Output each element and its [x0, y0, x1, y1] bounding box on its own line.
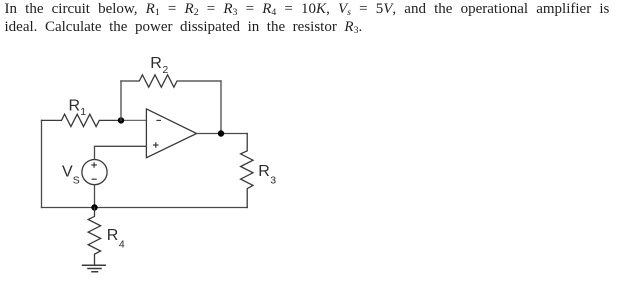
svg-text:S: S — [73, 174, 80, 186]
svg-text:R: R — [69, 97, 81, 114]
svg-text:R: R — [258, 163, 270, 180]
svg-text:4: 4 — [119, 239, 125, 251]
resistor R3 — [241, 134, 253, 208]
wire op-amp output — [197, 133, 248, 135]
op-amp U1 — [146, 109, 196, 158]
resistor R2 — [121, 75, 221, 87]
svg-text:R: R — [150, 55, 162, 72]
node B junction dot — [91, 204, 97, 210]
resistor R4 — [88, 208, 100, 266]
svg-text:V: V — [62, 163, 73, 180]
svg-text:3: 3 — [270, 174, 276, 186]
svg-text:1: 1 — [80, 106, 86, 118]
svg-text:2: 2 — [162, 64, 168, 76]
wire inverting input — [121, 119, 146, 121]
wire bottom horizontal — [42, 207, 248, 209]
node C junction dot — [218, 130, 224, 136]
source plus sign — [92, 163, 96, 167]
wire non-inverting input — [95, 146, 147, 159]
node A junction dot — [118, 117, 124, 123]
ground — [83, 265, 106, 272]
wire left vertical — [41, 120, 43, 207]
voltage source VS — [82, 160, 107, 185]
wire R2 right vertical — [220, 81, 222, 134]
svg-text:R: R — [107, 227, 119, 244]
op-amp plus sign — [154, 143, 158, 147]
resistor R1 — [42, 114, 122, 126]
op-amp minus sign — [157, 119, 160, 121]
wire source bottom — [94, 185, 96, 208]
source minus sign — [92, 178, 96, 180]
wire R2 left vertical — [120, 81, 122, 120]
